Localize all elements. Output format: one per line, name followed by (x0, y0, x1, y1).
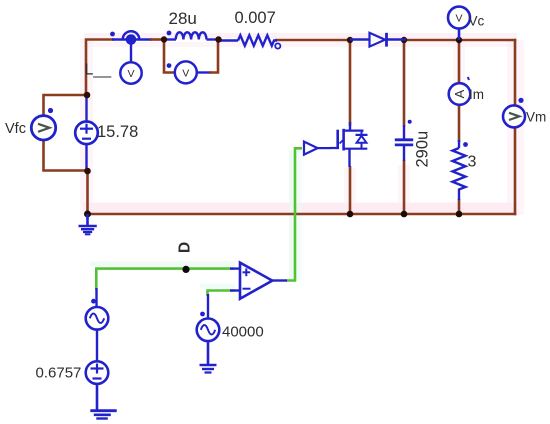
node D on green wire (182, 266, 189, 273)
node capacitor bottom (401, 211, 408, 218)
svg-text:D: D (177, 242, 194, 253)
resistor R3 (453, 140, 468, 200)
svg-text:Vfc: Vfc (5, 121, 26, 137)
sine source 40000 (197, 294, 220, 341)
wire battery top lead (85, 96, 87, 123)
probe Vm (503, 98, 525, 128)
wire ammeter to resistor R3 (458, 105, 461, 143)
op-amp comparator U1 (230, 263, 287, 299)
ground under 0.6757 (90, 384, 116, 419)
svg-text:Vm: Vm (526, 110, 546, 125)
wire inductor voltmeter branch right (209, 40, 218, 73)
svg-text:A: A (452, 89, 467, 98)
svg-text:L__: L__ (85, 62, 113, 79)
node battery bottom (84, 168, 91, 175)
node R3 bottom (456, 211, 463, 218)
wire sensor blue segment (112, 38, 152, 40)
node bus left ground (84, 211, 91, 218)
wire right edge vertical lower (514, 127, 517, 216)
voltmeter V across inductor (167, 61, 197, 83)
capacitor 290u (395, 120, 413, 161)
wire top bus between sensor and inductor (150, 38, 166, 41)
dc source 15.78 (75, 122, 98, 145)
wire inductor voltmeter branch left (164, 40, 175, 73)
node battery top (84, 92, 91, 99)
wire MOSFET drain vertical (349, 39, 352, 126)
node inductor left (161, 36, 167, 42)
ground under 40000 (200, 341, 217, 373)
svg-text:V: V (127, 68, 134, 80)
wire capacitor bottom vertical (403, 160, 406, 216)
green wire opamp output to driver (286, 148, 302, 280)
node source bottom (347, 211, 354, 218)
wire bottom bus (87, 213, 516, 216)
svg-text:15.78: 15.78 (97, 123, 138, 141)
svg-text:40000: 40000 (222, 324, 264, 341)
wire top bus resistor to drain node (275, 39, 352, 42)
MOSFET Q1 (330, 122, 368, 167)
voltmeter V under current sensor (120, 62, 141, 83)
wire resistor R3 to bottom bus (458, 199, 461, 215)
wire Vc node to ammeter (458, 39, 461, 84)
diode D1 (350, 33, 406, 47)
current sensor ISEN1 (110, 31, 139, 62)
wire Vfc top branch (44, 95, 89, 117)
ammeter Im (449, 77, 471, 105)
wire capacitor top vertical (403, 39, 406, 127)
svg-text:3: 3 (468, 154, 477, 171)
green wire plus input (96, 269, 234, 290)
svg-text:V: V (182, 68, 189, 80)
wire right edge vertical upper (514, 39, 517, 107)
sine source Vref top (86, 288, 109, 330)
gate driver U2 (304, 142, 331, 155)
wire top bus diode node to right corner (404, 39, 516, 42)
resistor 0.007 (218, 35, 280, 48)
svg-text:Vc: Vc (469, 14, 485, 29)
node inductor right (215, 36, 221, 42)
svg-text:Im: Im (469, 87, 484, 102)
wire battery bottom lead (85, 144, 87, 172)
svg-text:290u: 290u (414, 131, 432, 168)
probe Vfc (31, 108, 55, 140)
probe Vc (448, 7, 470, 40)
wire top bus left segment (86, 40, 114, 97)
svg-text:V: V (455, 13, 462, 25)
svg-text:0.6757: 0.6757 (36, 365, 82, 382)
svg-text:28u: 28u (169, 9, 197, 28)
wire Vfc bottom branch (44, 140, 89, 171)
node drain top (347, 37, 353, 43)
ground main left (79, 214, 97, 234)
node capacitor top (401, 37, 407, 43)
node Vc (456, 37, 462, 43)
green wire minus input (208, 291, 236, 297)
svg-text:0.007: 0.007 (235, 9, 276, 27)
dc source 0.6757 (86, 330, 109, 384)
wire MOSFET source vertical (349, 166, 352, 215)
wire inductor voltmeter branch right blue lead (197, 71, 212, 73)
inductor 28u (163, 31, 219, 40)
wire battery bottom node to bus (86, 170, 89, 215)
